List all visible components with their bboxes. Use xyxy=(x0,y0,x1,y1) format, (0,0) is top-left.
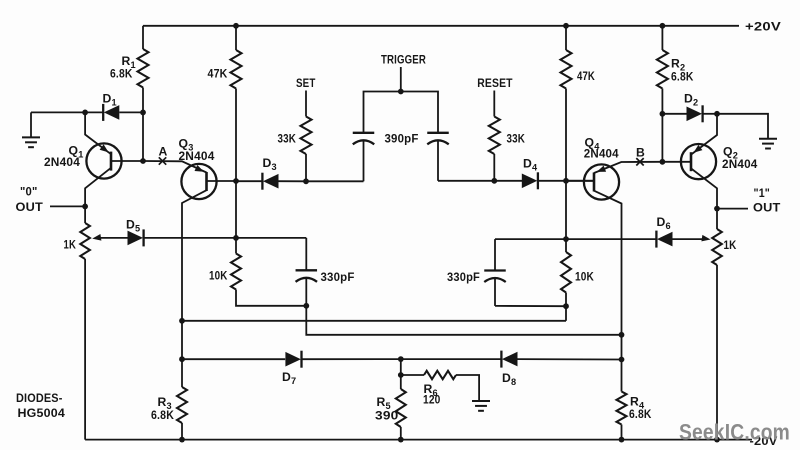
label RESET xyxy=(477,76,513,90)
svg-text:D7: D7 xyxy=(282,370,296,386)
svg-text:D6: D6 xyxy=(657,215,671,231)
svg-text:120: 120 xyxy=(423,393,441,407)
label 390 xyxy=(375,409,399,423)
label Q3 xyxy=(179,137,194,153)
label 47K left xyxy=(208,67,228,81)
label DIODES- xyxy=(16,391,63,405)
resistor 33K SET xyxy=(301,91,312,182)
capacitor 330pF left xyxy=(296,238,318,306)
node junction cross-couple on Q4 collector line xyxy=(619,332,625,338)
wire ground to Q1 emitter node xyxy=(31,111,103,113)
potentiometer 1K left xyxy=(80,206,90,439)
svg-text:A: A xyxy=(159,145,168,159)
wire TRIGGER stem xyxy=(400,67,402,92)
svg-text:"0": "0" xyxy=(20,185,38,199)
label 1K left xyxy=(64,238,77,252)
svg-text:D4: D4 xyxy=(523,157,538,173)
label TRIGGER xyxy=(381,53,426,67)
capacitor 390pF left xyxy=(353,133,375,182)
label "0" xyxy=(20,185,38,199)
node top-rail junction 47K-right xyxy=(563,23,569,29)
wire 1-OUT xyxy=(717,208,748,210)
svg-text:TRIGGER: TRIGGER xyxy=(381,53,426,67)
wire -20V bottom supply rail xyxy=(85,439,752,441)
resistor R3 6.8K xyxy=(177,359,187,439)
wire D6 anode to right pot wiper xyxy=(673,238,704,240)
wire R2 to Q2 base node xyxy=(661,114,663,162)
node junction R1 / Q1 base / node A xyxy=(140,158,146,164)
node bottom-rail junction right 1K xyxy=(714,437,720,443)
pot wiper arrow left xyxy=(92,234,128,241)
svg-text:33K: 33K xyxy=(507,132,526,146)
label D4 xyxy=(523,157,538,173)
label 1K right xyxy=(724,238,737,252)
label R5 xyxy=(377,395,391,411)
wire 47K-right node to Q4 base xyxy=(566,180,594,182)
node junction Q2 collector / OUT / 1K right xyxy=(714,206,720,212)
label +20V xyxy=(745,20,782,34)
wire Q3 base node to D3 xyxy=(236,180,262,182)
label 2N404 Q4 xyxy=(584,147,619,161)
label A xyxy=(159,145,168,159)
wire R6 left lead xyxy=(401,374,424,376)
label 2N404 Q3 xyxy=(179,149,215,163)
label D1 xyxy=(103,92,117,108)
wire R1 to Q1 base node xyxy=(142,112,144,161)
svg-text:"1": "1" xyxy=(754,186,771,200)
svg-text:D5: D5 xyxy=(126,218,140,234)
node junction left RC bottom xyxy=(303,303,309,309)
svg-text:390: 390 xyxy=(375,409,399,423)
ground R6 xyxy=(472,401,490,411)
label Q1 xyxy=(69,144,84,160)
wire D7 cathode to R5 top xyxy=(302,358,401,360)
transistor Q4 xyxy=(566,162,662,360)
node junction 47K-left / D5 wire / 10K-left xyxy=(233,235,239,241)
wire D6 node over to 330pF right xyxy=(495,238,566,240)
wire 10K-right node to D6 xyxy=(566,238,656,240)
svg-text:6.8K: 6.8K xyxy=(110,67,133,81)
label 33K RESET xyxy=(507,132,526,146)
node junction D1 / R1 xyxy=(140,110,146,116)
node top-rail junction R2 xyxy=(660,23,666,29)
wire 0-OUT xyxy=(50,205,85,207)
node junction D7 row on Q3 collector line xyxy=(179,356,185,362)
svg-text:2N404: 2N404 xyxy=(179,149,215,163)
label OUT right xyxy=(753,201,781,215)
transistor Q3 xyxy=(143,161,236,359)
label D8 xyxy=(502,371,516,387)
wire +20V top supply rail xyxy=(143,25,739,27)
diode D3 xyxy=(262,173,278,190)
node bottom-rail junction R5 xyxy=(398,437,404,443)
wire D4 cathode to 47K-right xyxy=(538,180,566,182)
svg-text:47K: 47K xyxy=(208,67,228,81)
wire right 390pF to RESET node xyxy=(438,180,494,182)
label D2 xyxy=(684,92,698,108)
node bottom-rail junction R4 xyxy=(619,437,625,443)
svg-text:HG5004: HG5004 xyxy=(18,406,66,420)
diode D4 xyxy=(522,172,538,189)
label -20V xyxy=(750,434,779,448)
label HG5004 xyxy=(18,406,66,420)
label OUT left xyxy=(16,200,44,214)
node junction 47K-right / Q4 base xyxy=(563,178,569,184)
resistor 47K right xyxy=(561,26,572,181)
label 2N404 Q2 xyxy=(722,157,758,171)
svg-text:2N404: 2N404 xyxy=(584,147,619,161)
svg-text:D1: D1 xyxy=(103,92,117,108)
node junction Q1 emitter / D1 wire xyxy=(82,110,88,116)
resistor 47K left xyxy=(231,26,242,181)
wire D8 anode to Q4 collector line xyxy=(518,358,622,360)
node junction RESET 33K / wire xyxy=(491,178,497,184)
node junction R2 / Q2 base / node B xyxy=(660,159,666,165)
svg-text:D8: D8 xyxy=(502,371,516,387)
node junction D8 row on Q4 collector line xyxy=(619,357,625,363)
label 6.8K R4 xyxy=(629,407,652,421)
svg-text:2N404: 2N404 xyxy=(44,155,80,169)
wire R5 top lead xyxy=(400,359,402,389)
label 47K right xyxy=(577,69,595,83)
diode D7 xyxy=(285,351,301,368)
svg-text:D3: D3 xyxy=(263,156,277,172)
label D5 xyxy=(126,218,140,234)
node junction Q1 collector / OUT / 1K xyxy=(82,204,88,210)
svg-text:1K: 1K xyxy=(64,238,77,252)
svg-text:10K: 10K xyxy=(209,269,228,283)
resistor 10K right xyxy=(561,239,571,321)
svg-text:6.8K: 6.8K xyxy=(671,70,694,84)
capacitor 390pF right xyxy=(427,133,449,181)
label Q2 xyxy=(723,145,738,161)
node junction R5 top xyxy=(398,356,404,362)
svg-text:10K: 10K xyxy=(575,270,594,284)
diode D8 xyxy=(501,351,517,368)
node top-rail junction 47K-left xyxy=(233,23,239,29)
label 390pF xyxy=(385,132,419,146)
watermark SeekIC.com xyxy=(679,420,790,445)
svg-text:RESET: RESET xyxy=(477,76,513,90)
diode D5 xyxy=(128,229,144,246)
resistor 33K RESET xyxy=(489,91,500,181)
label D6 xyxy=(657,215,671,231)
label 10K right xyxy=(575,270,594,284)
svg-text:6.8K: 6.8K xyxy=(151,408,174,422)
resistor R5 390 xyxy=(396,389,406,440)
wire right RC bottom cross-couple to Q3 collector xyxy=(182,320,566,322)
node junction 47K-right / D6 wire / 10K-right xyxy=(563,236,569,242)
wire SET node to left 390pF xyxy=(306,180,364,182)
node junction R2 / D2 xyxy=(660,111,666,117)
node junction right RC bottom xyxy=(563,303,569,309)
label SET xyxy=(296,76,316,90)
label R4 xyxy=(630,395,645,411)
svg-text:390pF: 390pF xyxy=(385,132,419,146)
node junction 47K-left / Q3 base / D3 xyxy=(233,178,239,184)
svg-text:OUT: OUT xyxy=(16,200,44,214)
svg-text:330pF: 330pF xyxy=(447,270,480,284)
node junction R5 / R6 xyxy=(398,372,404,378)
label Q4 xyxy=(585,136,601,152)
label "1" xyxy=(754,186,771,200)
wire D2 node to right ground xyxy=(717,114,768,139)
wire D5 cathode to 47K-left node xyxy=(144,237,236,239)
node bottom-rail junction R3 xyxy=(179,437,185,443)
resistor 10K left xyxy=(231,238,306,306)
label R2 xyxy=(671,57,685,73)
label 330pF right xyxy=(447,270,480,284)
svg-text:6.8K: 6.8K xyxy=(629,407,652,421)
label 120 xyxy=(423,393,441,407)
label D3 xyxy=(263,156,277,172)
label 6.8K R3 xyxy=(151,408,174,422)
label 10K left xyxy=(209,269,228,283)
svg-text:SeekIC.com: SeekIC.com xyxy=(679,420,790,445)
svg-text:+20V: +20V xyxy=(745,20,782,34)
resistor R2 6.8K xyxy=(657,26,668,114)
wire 47K-left down to D5 node xyxy=(235,181,237,238)
label 6.8K R1 xyxy=(110,67,133,81)
wire R2 node to D2 xyxy=(662,113,686,115)
ground right xyxy=(759,139,777,149)
wire RESET node to D4 xyxy=(494,180,522,182)
label 33K SET xyxy=(278,132,297,146)
wire D2 to Q2 emitter node xyxy=(703,113,717,115)
node junction Q2 emitter / D2 wire xyxy=(714,111,720,117)
ground left xyxy=(22,112,40,147)
potentiometer 1K right xyxy=(712,209,722,440)
diode D6 xyxy=(656,231,672,248)
svg-text:33K: 33K xyxy=(278,132,297,146)
svg-text:OUT: OUT xyxy=(753,201,781,215)
svg-text:DIODES-: DIODES- xyxy=(16,391,63,405)
wire left RC bottom cross-couple to Q4 collector xyxy=(306,306,621,335)
resistor R4 6.8K xyxy=(617,360,627,440)
transistor Q1 xyxy=(85,112,143,206)
label 2N404 Q1 xyxy=(44,155,80,169)
wire R5 node to D8 xyxy=(401,358,502,360)
svg-text:330pF: 330pF xyxy=(321,270,355,284)
svg-text:B: B xyxy=(636,146,645,160)
diode D1 xyxy=(103,104,119,121)
label 6.8K R2 xyxy=(671,70,694,84)
capacitor 330pF right xyxy=(484,239,506,306)
label R1 xyxy=(122,54,136,70)
wire R6 to ground xyxy=(456,375,479,401)
svg-text:1K: 1K xyxy=(724,238,737,252)
node A marker xyxy=(159,157,166,164)
label 330pF left xyxy=(321,270,355,284)
wire D1 cathode... anode to R1 xyxy=(119,111,143,113)
diode D2 xyxy=(687,105,703,122)
label D7 xyxy=(282,370,296,386)
wire D5 node over to 330pF left xyxy=(236,237,306,239)
svg-text:SET: SET xyxy=(296,76,316,90)
wire trigger bracket xyxy=(364,92,439,133)
svg-text:D2: D2 xyxy=(684,92,698,108)
wire right cap bottom to 10K right xyxy=(495,305,566,307)
transistor Q2 xyxy=(662,114,717,209)
label R3 xyxy=(158,395,172,411)
resistor R6 120 xyxy=(424,371,456,379)
node junction cross-couple on Q3 collector line xyxy=(179,318,185,324)
node B marker xyxy=(636,158,643,165)
wire D3 anode to SET node xyxy=(279,180,307,182)
wire 47K-right down to D6 node xyxy=(565,181,567,239)
svg-text:2N404: 2N404 xyxy=(722,157,758,171)
resistor R1 6.8K xyxy=(138,26,149,113)
label R6 xyxy=(424,382,438,398)
node TRIGGER junction xyxy=(398,89,404,95)
label B xyxy=(636,146,645,160)
svg-text:47K: 47K xyxy=(577,69,595,83)
wire Q3-collector line to D7 xyxy=(182,358,285,360)
node junction SET 33K / wire xyxy=(303,178,309,184)
pot wiper arrow right xyxy=(701,235,710,242)
